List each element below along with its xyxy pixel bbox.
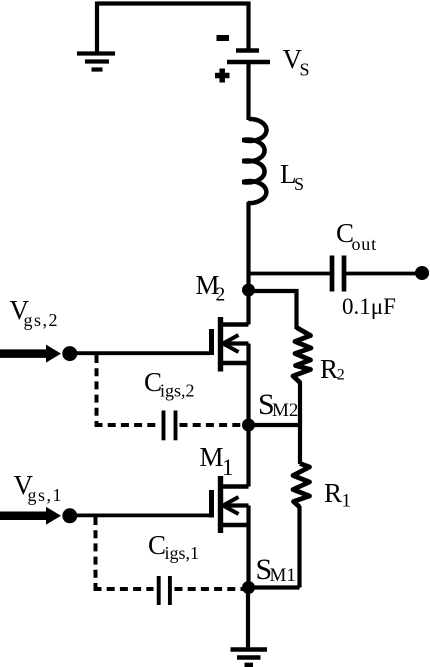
input arrow Vgs2 (0, 345, 61, 363)
wire top horizontal (97, 1, 249, 5)
wire gate M1 (70, 514, 210, 518)
svg-text:igs,2: igs,2 (160, 381, 195, 401)
resistor R1 (293, 464, 310, 508)
label Cigs1 (148, 530, 199, 563)
wire SM1 horizontal (249, 585, 300, 589)
ground (top left) (77, 54, 115, 70)
wire R1 bottom to SM1 junction (297, 506, 301, 588)
battery VS (215, 38, 270, 83)
wire gate M2 (70, 351, 210, 355)
transistor M2 (212, 317, 249, 372)
svg-text:igs,1: igs,1 (165, 543, 200, 563)
wire SM1 to ground (246, 588, 250, 650)
capacitor Cigs1 dashed branch (94, 517, 245, 589)
wire left drop to ground (95, 2, 99, 54)
node SM1 (242, 581, 255, 594)
wire output right (344, 272, 429, 276)
svg-text:2: 2 (337, 367, 345, 384)
wire SM2 node to M1 drain (246, 425, 250, 487)
capacitor Cigs2 dashed branch (95, 355, 245, 425)
label R1 (324, 478, 351, 512)
label 0.1uF (342, 294, 396, 319)
node gate M1 (62, 508, 77, 523)
wire SM2 horizontal (249, 423, 300, 427)
wire main bus inductor to M2 drain (246, 202, 250, 325)
ground (bottom) (231, 650, 268, 665)
label VS (283, 44, 310, 80)
svg-text:out: out (352, 234, 377, 254)
svg-text:gs,1: gs,1 (28, 485, 64, 505)
wire output horizontal (249, 272, 333, 276)
label Cout (336, 218, 377, 254)
svg-text:S: S (300, 60, 310, 80)
label Vgs2 (10, 295, 60, 330)
svg-text:M1: M1 (270, 565, 296, 586)
input arrow Vgs1 (0, 507, 61, 525)
wire M2 source down to SM2 node (246, 344, 250, 426)
svg-text:M: M (200, 442, 224, 472)
svg-text:0.1μF: 0.1μF (342, 294, 396, 319)
node gate M2 (62, 346, 77, 361)
label Cigs2 (144, 367, 195, 401)
wire M1 source down to SM1 node (246, 506, 250, 588)
capacitor Cigs2 plates (164, 411, 176, 441)
label M1 (200, 442, 234, 480)
node SM2 (242, 419, 255, 432)
label Vgs1 (14, 470, 64, 505)
svg-text:C: C (148, 530, 166, 560)
wire battery top lead (246, 2, 250, 51)
svg-text:S: S (294, 174, 304, 194)
label SM2 (258, 388, 298, 421)
wire R2 bottom through SM2 junction to R1 (298, 382, 302, 464)
capacitor Cigs1 plates (159, 576, 170, 605)
svg-text:R: R (320, 354, 338, 384)
node drain M2 (242, 284, 255, 297)
label SM1 (256, 553, 296, 586)
capacitor Cout (332, 256, 344, 292)
wire battery to inductor (246, 62, 250, 120)
node output terminal (415, 266, 429, 280)
transistor M1 (212, 476, 249, 533)
svg-text:1: 1 (342, 491, 352, 512)
inductor LS (243, 119, 267, 203)
resistor R2 (293, 328, 311, 384)
svg-text:2: 2 (216, 285, 226, 306)
svg-text:M2: M2 (272, 400, 298, 421)
svg-text:1: 1 (222, 455, 234, 480)
svg-text:R: R (324, 478, 342, 508)
svg-text:gs,2: gs,2 (24, 310, 60, 330)
label R2 (320, 354, 345, 384)
label LS (280, 159, 304, 194)
label M2 (196, 270, 226, 306)
wire drain node to R2 (249, 291, 297, 329)
